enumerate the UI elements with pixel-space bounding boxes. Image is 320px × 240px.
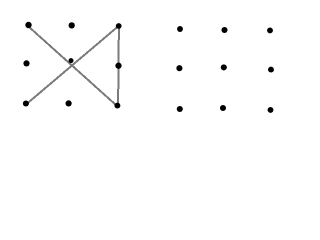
wire diagonal from top-right dot to bottom-left dot [26,26,118,104]
node right grid top-left [177,26,183,32]
node right grid center [221,64,227,70]
node right grid middle-right [268,67,274,73]
node left grid top-left [25,22,31,28]
node right grid bottom-middle [220,105,226,111]
node right grid bottom-left [177,106,183,112]
node left grid top-right [116,23,122,29]
node left grid middle-left [23,60,29,66]
node left grid bottom-left [23,100,29,106]
node right grid middle-left [176,65,182,71]
node right grid top-middle [221,27,227,33]
node left grid top-middle [69,22,75,28]
node left grid bottom-right [114,103,120,109]
node left grid middle-right [115,63,121,69]
node right grid top-right [267,27,273,33]
wire diagonal from top-left dot to bottom-right dot [29,27,118,107]
wire vertical from top-right dot to bottom-right dot [117,26,120,105]
node left grid bottom-middle [66,100,72,106]
node left grid center [69,58,74,63]
node right grid bottom-right [268,107,274,113]
